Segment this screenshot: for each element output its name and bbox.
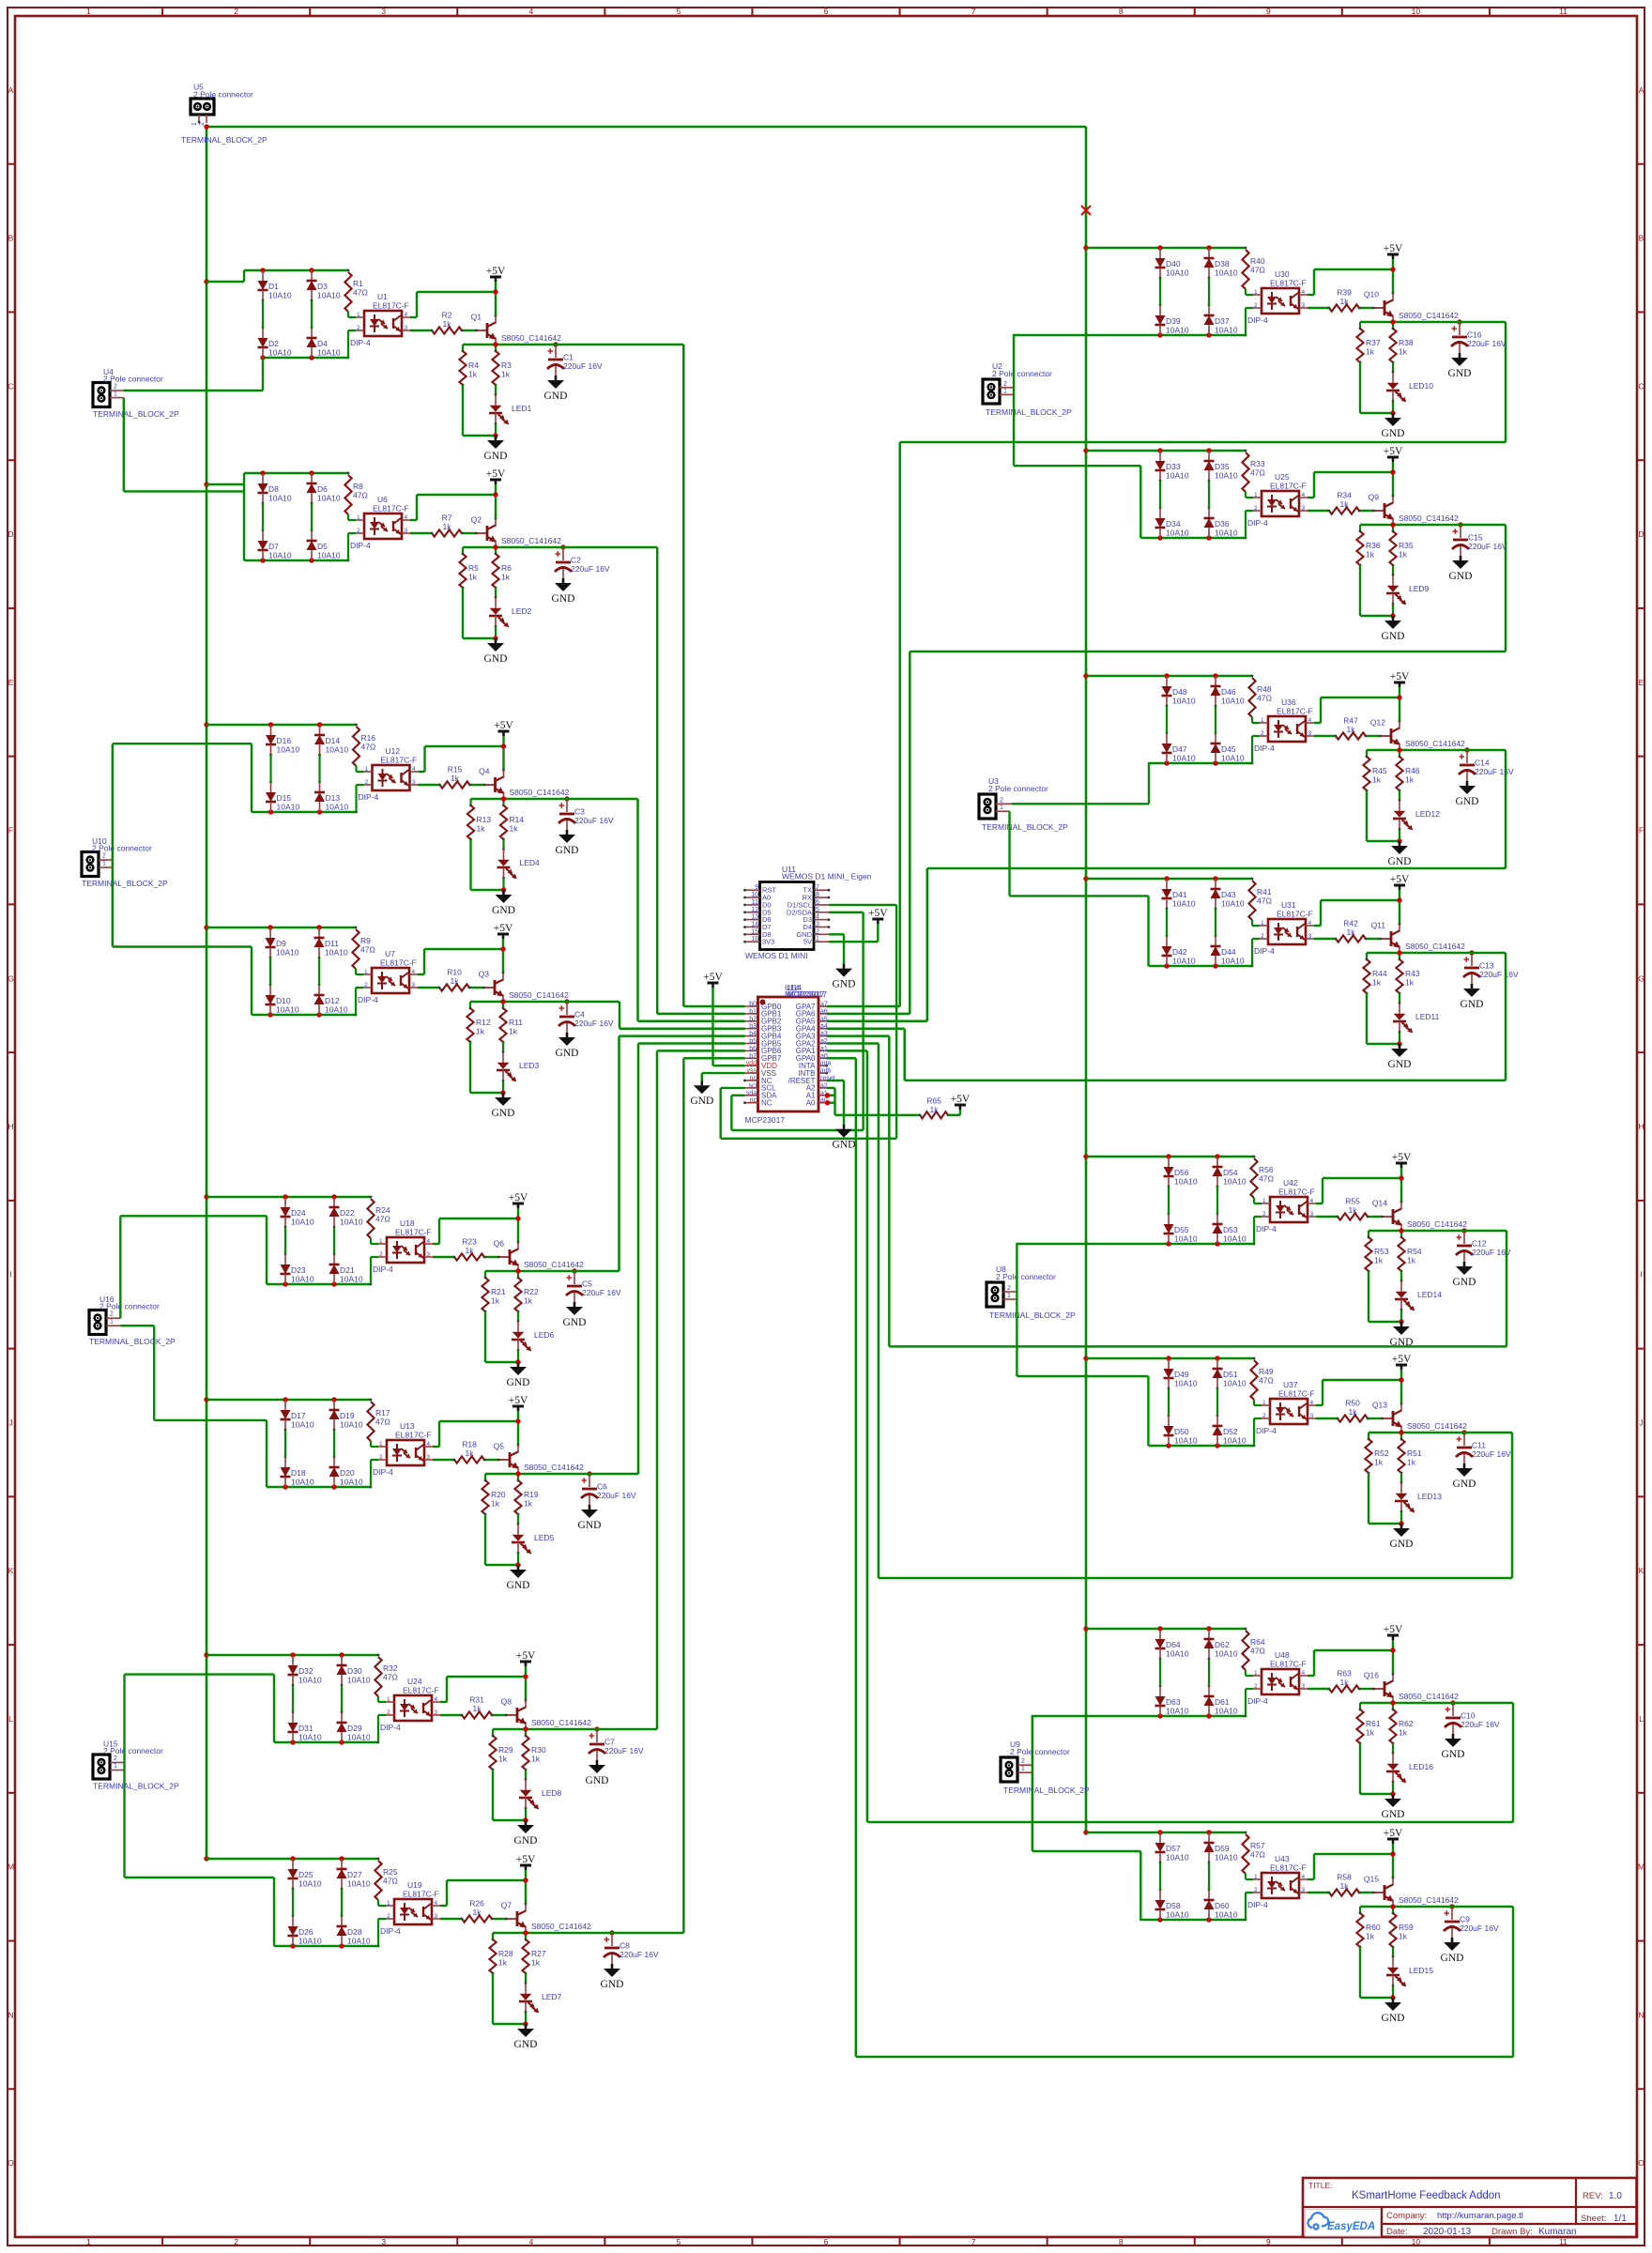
wire [1369,1321,1401,1323]
capacitor C4 220uF 16V [564,999,569,1004]
diode D45 [1215,733,1216,743]
svg-text:D26: D26 [298,1927,314,1937]
wire [485,1361,518,1363]
svg-text:1k: 1k [498,1755,508,1764]
resistor R59 1k [1392,1907,1394,1913]
svg-text:GND: GND [492,1108,515,1119]
svg-text:Drawn By:: Drawn By: [1491,2227,1533,2237]
LED LED2 [495,588,497,598]
wire +5V to collector [1392,259,1394,293]
svg-text:GND: GND [833,1140,856,1151]
wire bridge bottom rail ch4 [252,1014,356,1016]
svg-text:C5: C5 [582,1280,592,1289]
svg-text:D52: D52 [1223,1427,1238,1436]
svg-text:U19: U19 [407,1880,422,1890]
wire [1251,939,1253,966]
wire opto collector to +5V [418,973,424,975]
svg-text:GND: GND [514,2039,538,2050]
wire [348,330,356,331]
svg-text:C8: C8 [619,1941,630,1951]
wire /RESET to GND [827,1080,844,1081]
wire [418,987,439,989]
svg-text:3: 3 [1302,302,1306,309]
svg-text:GND: GND [1441,1953,1464,1964]
svg-text:N: N [1638,2010,1644,2019]
resistor R40 47ohm [1242,250,1248,289]
svg-text:3: 3 [1308,730,1312,737]
diode D53 [1216,1214,1218,1224]
wire [1392,400,1395,403]
wire [357,784,364,786]
wire +5V to collector [517,1411,519,1445]
pin 8 RX [814,897,829,898]
wire bridge bottom rail ch1 [263,357,348,359]
svg-text:D13: D13 [326,793,341,803]
svg-text:Q15: Q15 [1364,1875,1379,1884]
resistor R55 1k [1338,1213,1368,1219]
resistor R44 1k [1366,953,1368,959]
diode D14 [319,725,321,735]
svg-text:R38: R38 [1399,338,1414,347]
wire [1246,1892,1253,1893]
svg-text:3: 3 [381,7,386,16]
wire bridge top rail ch2 [244,472,348,474]
svg-text:10A10: 10A10 [1166,326,1189,335]
wire opto collector to +5V [1314,722,1321,724]
svg-text:1: 1 [86,7,91,16]
svg-text:D23: D23 [291,1265,306,1275]
capacitor C10 220uF 16V [1450,1700,1455,1705]
svg-text:Q4: Q4 [479,767,490,776]
wire output rail ch2 to GPB1 [463,546,657,549]
svg-text:GND: GND [556,1048,579,1059]
svg-text:R9: R9 [360,936,371,945]
diode D39 [1159,305,1161,315]
svg-text:EL817C-F: EL817C-F [1277,910,1313,919]
wire [1360,1997,1393,1999]
wire [1245,308,1247,335]
opto-coupler U6 EL817C-F [364,513,402,539]
pin /RESET [818,1080,827,1081]
resistor R34 1k [1329,507,1359,513]
pin SDA [745,1095,758,1096]
svg-text:I: I [1640,1270,1642,1280]
IC U14 MCP23017 [758,997,819,1111]
wire [462,588,464,638]
svg-text:C4: C4 [574,1010,585,1019]
diode D48 [1166,676,1168,686]
opto-coupler U43 EL817C-F [1262,1873,1299,1898]
svg-text:1: 1 [1254,492,1258,498]
terminal block U10 [82,852,99,877]
svg-text:16: 16 [751,936,758,943]
svg-text:4: 4 [435,1696,438,1703]
transistor Q6 S8050 [509,1249,512,1264]
ground under LED5 [517,1565,520,1570]
wire [311,503,313,530]
svg-text:1k: 1k [1366,550,1375,559]
svg-text:4: 4 [1302,492,1306,498]
diode D38 [1208,248,1210,258]
node bus tap ch4 [204,925,208,929]
wire bridge bottom rail ch9 [1014,334,1246,336]
svg-text:a7: a7 [820,1002,828,1008]
LED LED12 [1399,790,1400,801]
wire [1245,492,1247,498]
svg-text:DIP-4: DIP-4 [1256,1426,1277,1435]
resistor R33 47ohm [1242,452,1248,492]
svg-text:4: 4 [528,2237,533,2246]
wire +5V to collector [502,736,504,770]
svg-text:1: 1 [1021,1766,1025,1772]
wire [1251,717,1253,723]
svg-text:10A10: 10A10 [317,551,341,560]
svg-text:R13: R13 [477,815,492,824]
svg-text:1k: 1k [1366,1728,1375,1738]
wire [1366,790,1368,841]
wire [1308,307,1329,309]
svg-text:NC: NC [761,1099,772,1108]
svg-text:1k: 1k [498,1958,508,1968]
svg-text:Q8: Q8 [501,1697,512,1707]
svg-text:E: E [8,678,14,687]
pin 2 GND [814,933,829,935]
svg-text:vdd: vdd [746,1061,757,1067]
EasyEDA logo [1306,2210,1381,2237]
resistor R32 47ohm [375,1657,381,1696]
svg-text:D32: D32 [298,1666,314,1676]
svg-text:S8050_C141642: S8050_C141642 [1399,311,1459,320]
wire opto collector to +5V [1316,1404,1323,1406]
pin A0 [818,1102,827,1104]
opto-coupler U18 EL817C-F [387,1237,424,1263]
svg-text:1k: 1k [1366,1932,1375,1941]
opto-coupler U19 EL817C-F [394,1899,432,1924]
svg-text:1k: 1k [1372,775,1382,785]
svg-text:LED15: LED15 [1409,1966,1433,1975]
svg-text:1k: 1k [524,1499,533,1509]
svg-text:A: A [8,85,14,95]
svg-text:EasyEDA: EasyEDA [1327,2221,1375,2232]
svg-text:S8050_C141642: S8050_C141642 [510,788,570,797]
svg-text:GND: GND [484,653,508,665]
svg-text:1: 1 [102,861,106,867]
opto-coupler U1 EL817C-F [364,311,402,336]
svg-text:D59: D59 [1215,1844,1230,1853]
wire [433,1459,454,1461]
svg-text:D55: D55 [1174,1225,1189,1234]
resistor R7 1k [432,529,462,536]
svg-text:1k: 1k [1340,1881,1350,1891]
svg-text:R20: R20 [491,1490,506,1499]
wire bridge bottom rail ch2 [244,559,348,561]
svg-text:1: 1 [357,514,360,521]
svg-text:1k: 1k [1399,550,1408,559]
diode D58 [1159,1890,1161,1900]
wire U3.2 to ch11 bridge [1012,803,1149,805]
svg-text:R48: R48 [1257,684,1272,694]
wire R65 to +5V [948,1114,960,1116]
svg-text:TERMINAL_BLOCK_2P: TERMINAL_BLOCK_2P [82,879,168,888]
wire [492,1918,507,1920]
wire [347,330,349,358]
wire [502,1080,505,1082]
svg-text:D6: D6 [317,484,328,494]
wire [348,519,356,521]
wire [269,755,271,782]
transistor Q8 S8050 [516,1708,519,1723]
svg-text:F: F [1639,826,1644,835]
wire [485,1564,518,1566]
svg-text:10A10: 10A10 [1174,1379,1198,1388]
svg-text:Q3: Q3 [479,970,490,979]
terminal block U5 [191,99,214,115]
svg-text:LED14: LED14 [1417,1290,1442,1299]
svg-text:C7: C7 [604,1738,615,1747]
svg-text:1k: 1k [1374,1458,1384,1467]
wire [356,973,363,975]
svg-text:U13: U13 [400,1421,415,1431]
wire bridge bottom rail ch16 [1140,1919,1246,1921]
pin GPA2 [818,1043,827,1045]
svg-text:R29: R29 [498,1745,513,1755]
wire WEMOS GND [829,933,844,935]
svg-text:1k: 1k [1399,1932,1408,1941]
svg-text:GND: GND [1382,428,1405,439]
svg-text:10A10: 10A10 [1215,268,1238,278]
svg-text:4: 4 [1302,289,1306,296]
transistor Q16 S8050 [1384,1681,1386,1696]
wire bridge top rail ch15 [1086,1628,1246,1630]
svg-text:GND: GND [544,391,568,402]
resistor R36 1k [1359,525,1361,531]
svg-text:TERMINAL_BLOCK_2P: TERMINAL_BLOCK_2P [1003,1786,1090,1795]
wire [355,785,357,812]
wire [1366,735,1381,737]
wire [471,889,504,891]
svg-text:10A10: 10A10 [1223,1379,1247,1388]
svg-text:D5: D5 [317,542,328,551]
wire [1246,307,1253,309]
wire [1208,278,1210,305]
wire [1253,1217,1255,1244]
svg-text:R5: R5 [468,563,479,573]
svg-text:J: J [8,1418,12,1427]
svg-text:D24: D24 [291,1208,306,1218]
wire [1399,1031,1401,1034]
svg-text:4: 4 [427,1441,431,1448]
capacitor C1 220uF 16V [553,342,558,346]
svg-text:C6: C6 [597,1482,607,1492]
svg-text:R4: R4 [468,360,479,370]
svg-text:D34: D34 [1166,519,1181,529]
wire [1246,510,1253,512]
diode D20 [333,1457,335,1467]
svg-text:1k: 1k [524,1296,533,1306]
terminal block U3 [979,794,996,819]
svg-text:LED5: LED5 [534,1533,555,1542]
svg-text:1: 1 [1254,289,1258,296]
svg-text:10A10: 10A10 [298,1676,322,1685]
diode D12 [318,985,320,995]
resistor R41 47ohm [1248,881,1255,920]
node bus junction U5 [204,124,208,129]
svg-text:D22: D22 [340,1208,355,1218]
resistor R4 1k [462,345,464,351]
wire [1400,1309,1403,1311]
resistor R24 47ohm [367,1199,374,1238]
wire [377,1696,379,1702]
svg-text:6: 6 [824,2237,829,2246]
wire [292,1889,294,1916]
transistor Q15 S8050 [1384,1885,1386,1900]
wire [469,987,484,989]
wire [440,1714,462,1716]
transistor Q9 S8050 [1384,503,1386,518]
diode D34 [1159,508,1161,518]
resistor R53 1k [1368,1231,1369,1237]
svg-text:1k: 1k [1349,1407,1358,1417]
diode D55 [1168,1214,1170,1224]
svg-text:1: 1 [1254,1670,1258,1677]
svg-text:S8050_C141642: S8050_C141642 [1407,1421,1467,1431]
svg-text:U37: U37 [1283,1380,1298,1389]
diode D13 [319,782,321,792]
wire opto collector to +5V [433,1243,439,1245]
svg-text:LED3: LED3 [519,1061,540,1070]
wire [1308,1892,1329,1893]
svg-text:R17: R17 [375,1408,390,1418]
svg-text:EL817C-F: EL817C-F [373,301,409,311]
wire [493,1819,526,1821]
svg-text:WEMOS D1 MINI_ Eigen: WEMOS D1 MINI_ Eigen [782,872,872,881]
wire [463,435,496,437]
pin 5 D2/SDA [814,912,829,913]
svg-text:D1: D1 [268,282,279,291]
pin GPB7 [745,1057,758,1059]
wire [1359,307,1374,309]
svg-text:EL817C-F: EL817C-F [381,756,418,765]
wire [1208,481,1210,508]
diode D22 [333,1197,335,1207]
ground under LED3 [502,1093,505,1097]
diode D60 [1208,1890,1210,1900]
svg-text:10A10: 10A10 [1166,1853,1189,1862]
svg-text:EL817C-F: EL817C-F [1277,707,1313,716]
svg-text:D: D [1638,529,1644,539]
svg-text:TERMINAL_BLOCK_2P: TERMINAL_BLOCK_2P [982,822,1068,832]
svg-text:10A10: 10A10 [298,1879,322,1889]
svg-text:10A10: 10A10 [1215,326,1238,335]
svg-text:1k: 1k [477,824,486,834]
svg-text:10A10: 10A10 [1166,1649,1189,1659]
transistor Q5 S8050 [509,1452,512,1467]
resistor R47 1k [1336,732,1366,739]
svg-text:2: 2 [357,528,360,534]
svg-text:b1: b1 [749,1008,757,1015]
svg-text:D58: D58 [1166,1901,1181,1910]
opto-coupler U36 EL817C-F [1268,716,1306,742]
wire opto collector to +5V [410,519,417,521]
svg-text:10A10: 10A10 [325,948,348,958]
wire output rail ch7 to GPB6 [493,1728,657,1731]
svg-text:1k: 1k [930,1105,940,1114]
transistor Q12 S8050 [1390,728,1393,743]
wire [469,1042,471,1093]
wire [1254,1203,1262,1204]
svg-text:10A10: 10A10 [298,1733,322,1742]
wire [440,1918,462,1920]
diode D18 [284,1457,286,1467]
resistor R1 47ohm [344,272,351,312]
terminal block U2 [983,379,1000,404]
wire bridge bottom rail ch11 [1149,762,1252,764]
svg-text:a4: a4 [820,1023,828,1030]
node bus tap ch7 [204,1652,208,1657]
svg-text:R45: R45 [1372,766,1387,775]
svg-text:R57: R57 [1250,1841,1265,1850]
svg-text:D2: D2 [268,339,279,348]
svg-text:1: 1 [379,1441,383,1448]
svg-text:220uF 16V: 220uF 16V [1479,970,1519,979]
svg-text:10A10: 10A10 [1166,471,1189,481]
svg-text:C2: C2 [571,556,581,565]
resistor R25 47ohm [375,1861,381,1900]
svg-text:MCP23017: MCP23017 [745,1115,786,1125]
svg-text:4: 4 [427,1238,431,1245]
LED LED13 [1400,1473,1402,1483]
svg-text:D18: D18 [291,1468,306,1478]
svg-text:+5V: +5V [1390,671,1410,682]
svg-text:1: 1 [1261,717,1264,724]
svg-text:+5V: +5V [1384,1624,1403,1635]
pin 14 D7 [745,926,760,927]
svg-text:EL817C-F: EL817C-F [1270,279,1307,288]
svg-text:R22: R22 [524,1287,539,1296]
svg-text:10A10: 10A10 [1172,899,1196,909]
resistor R23 1k [454,1253,484,1260]
wire bridge top rail ch4 [206,927,356,928]
wire [1316,1216,1338,1218]
wire [1252,938,1260,940]
svg-text:+5V: +5V [951,1094,971,1105]
svg-text:47Ω: 47Ω [1257,694,1272,703]
pin A1 [818,1095,827,1096]
wire +5V to collector [1392,1844,1394,1877]
wire [262,503,264,530]
svg-text:3: 3 [412,779,416,786]
wire [492,1973,494,2024]
svg-text:2: 2 [1261,730,1264,737]
svg-text:C14: C14 [1475,759,1490,768]
svg-text:A0: A0 [806,1099,816,1108]
svg-text:3: 3 [427,1251,431,1258]
svg-text:3: 3 [412,982,416,989]
svg-text:2: 2 [110,1311,114,1318]
svg-text:2: 2 [379,1251,383,1258]
ground under LED11 [1399,1044,1401,1049]
ground at U14 /RESET [843,1125,846,1129]
svg-text:3: 3 [1310,1413,1314,1419]
svg-text:R61: R61 [1366,1719,1381,1728]
svg-text:TERMINAL_BLOCK_2P: TERMINAL_BLOCK_2P [989,1310,1076,1320]
resistor R50 1k [1338,1415,1368,1421]
svg-text:2 Pole connector: 2 Pole connector [996,1272,1056,1281]
diode D2 [262,328,264,338]
svg-text:C11: C11 [1472,1441,1486,1450]
wire [484,1311,486,1362]
resistor R28 1k [492,1933,494,1939]
